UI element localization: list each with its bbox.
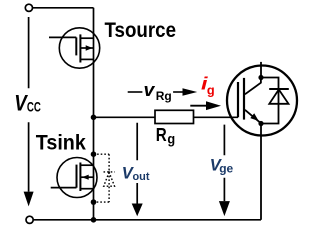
diode bar IGBT: [269, 88, 289, 90]
current arrow ig line: [190, 105, 207, 107]
svg-text:g: g: [167, 130, 175, 146]
emitter arrow IGBT: [250, 113, 258, 121]
label vge (navy): [210, 156, 234, 175]
body arrow Tsink: [82, 175, 89, 180]
gate plate Tsource: [75, 37, 77, 55]
circle IGBT: [227, 66, 297, 136]
svg-text:R: R: [156, 124, 167, 145]
diode branch IGBT: [261, 78, 279, 124]
svg-text:ge: ge: [219, 162, 233, 176]
gate bar IGBT: [237, 82, 239, 117]
body stub Tsink: [80, 176, 93, 178]
svg-text:v: v: [144, 80, 156, 100]
svg-text:CC: CC: [27, 99, 41, 114]
terminal top-left: [25, 4, 32, 11]
wire main vertical branch: [93, 8, 95, 220]
label vout (navy): [122, 164, 150, 183]
label vRg: [144, 80, 172, 103]
svg-text:g: g: [207, 82, 215, 97]
dotted wire right: [108, 154, 110, 202]
junction diode top: [91, 151, 97, 157]
svg-text:out: out: [133, 171, 150, 183]
voltage arrow vge line: [223, 125, 225, 202]
body arrow Tsource: [86, 45, 93, 50]
drain stub Tsink: [80, 164, 93, 166]
channel bar IGBT: [243, 78, 245, 120]
wire gate lead Tsink: [51, 187, 77, 189]
dotted wire top: [94, 153, 110, 155]
channel bar Tsink: [79, 163, 81, 192]
channel bar Tsource: [79, 34, 81, 62]
voltage arrow vout head: [132, 204, 143, 217]
dotted diode bar: [104, 171, 115, 173]
junction mid rail: [91, 115, 97, 121]
label VCC: [14, 91, 41, 116]
voltage arrow VCC line: [28, 17, 30, 192]
drain stub Tsource: [80, 37, 93, 39]
svg-text:Tsource: Tsource: [105, 18, 177, 42]
arrow head vRg: [183, 88, 198, 96]
voltage arrow vge head: [219, 201, 230, 216]
gate plate Tsink: [76, 165, 78, 188]
junction IGBT collector: [258, 75, 263, 80]
svg-text:Rg: Rg: [156, 89, 172, 103]
wire top rail: [29, 7, 94, 9]
body stub Tsource: [80, 47, 93, 49]
junction bottom rail: [91, 217, 97, 223]
dotted diode triangle: [104, 172, 115, 186]
label Rg: [156, 124, 176, 146]
source stub Tsource: [80, 58, 93, 60]
circle Tsink: [57, 158, 97, 198]
wire gate lead Tsource: [49, 36, 76, 38]
svg-text:Tsink: Tsink: [36, 131, 86, 155]
transistor Q Tsink: [51, 163, 94, 192]
voltage arrow VCC head: [24, 192, 34, 207]
body diode Tsink (dotted): [94, 154, 115, 202]
wire mid rail to resistor: [94, 116, 156, 118]
terminal bottom-left: [26, 216, 33, 223]
emitter lead IGBT: [260, 124, 262, 220]
IGBT U1: [238, 62, 289, 220]
collector diagonal IGBT: [245, 78, 261, 95]
voltage arrow vRg (line - label - arrow): [128, 91, 143, 93]
junction diode bottom: [91, 199, 97, 205]
wire bottom rail: [30, 219, 261, 221]
arrow line vRg: [173, 91, 184, 93]
emitter diagonal IGBT: [245, 110, 261, 124]
source stub Tsink: [80, 188, 93, 190]
transistor Q Tsource: [49, 34, 94, 62]
wire resistor to IGBT gate: [194, 116, 239, 118]
voltage arrow vout line: [136, 123, 138, 204]
current arrow ig head: [206, 101, 221, 110]
resistor Rg: [155, 110, 194, 123]
dotted wire bottom: [94, 201, 110, 203]
junction IGBT emitter: [258, 121, 263, 126]
collector lead IGBT: [260, 62, 262, 78]
circle Tsource: [59, 28, 99, 68]
diode triangle IGBT: [269, 90, 288, 104]
label ig (red): [201, 74, 215, 98]
